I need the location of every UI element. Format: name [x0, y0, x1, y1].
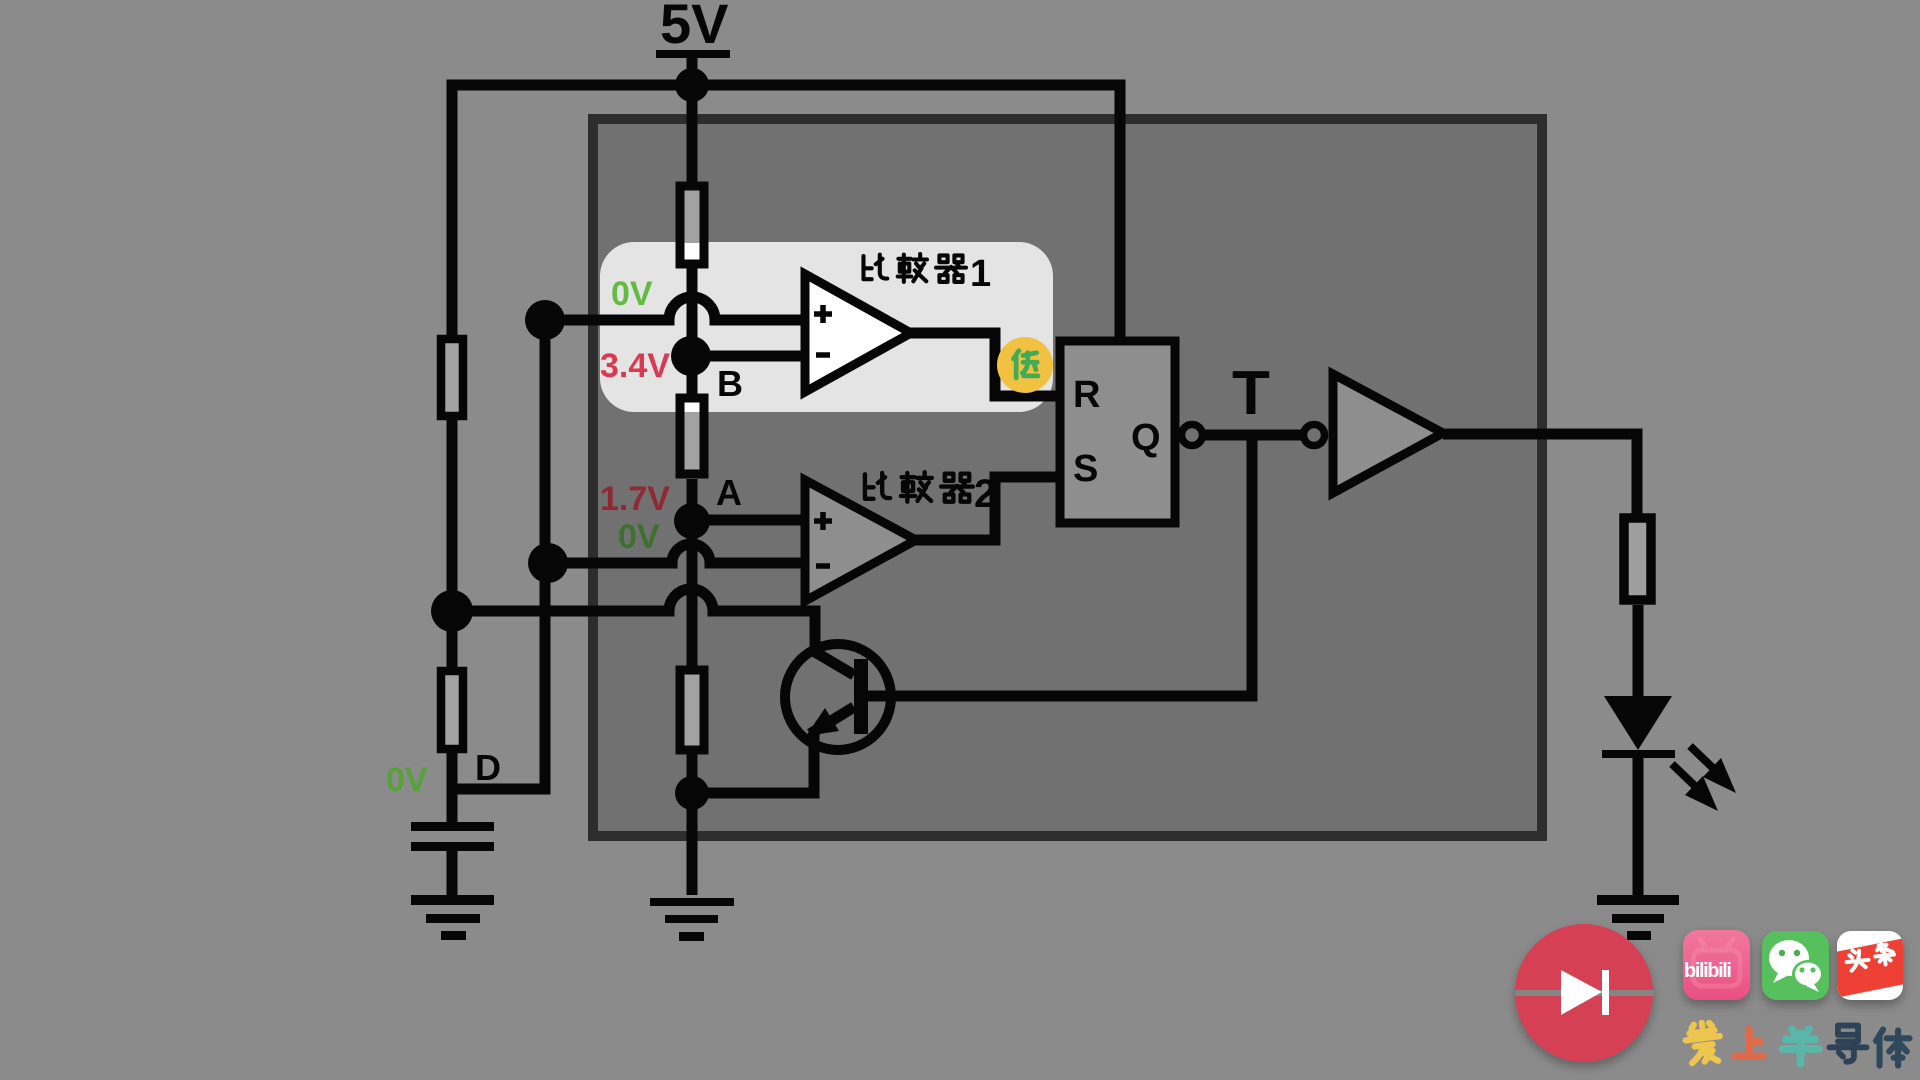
- svg-text:0V: 0V: [611, 275, 653, 313]
- svg-text:B: B: [717, 363, 743, 404]
- svg-text:D: D: [475, 747, 501, 788]
- svg-text:0V: 0V: [386, 761, 428, 799]
- svg-text:A: A: [716, 472, 742, 513]
- svg-text:3.4V: 3.4V: [600, 347, 670, 385]
- svg-text:R: R: [1073, 374, 1100, 416]
- svg-text:5V: 5V: [660, 0, 729, 55]
- svg-text:1: 1: [970, 253, 991, 295]
- svg-text:1.7V: 1.7V: [600, 480, 670, 518]
- svg-text:T: T: [1232, 359, 1270, 428]
- svg-text:0V: 0V: [618, 518, 660, 556]
- svg-text:Q: Q: [1131, 417, 1161, 459]
- svg-text:S: S: [1073, 448, 1098, 490]
- svg-text:2: 2: [974, 472, 996, 516]
- svg-text:bilibili: bilibili: [1684, 960, 1731, 982]
